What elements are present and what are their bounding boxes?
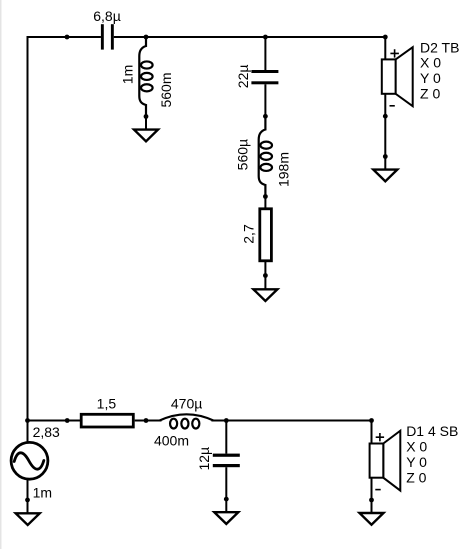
source V1 circle [11, 442, 48, 479]
wire R2 top [264, 197, 266, 209]
wire R2 bottom [264, 262, 266, 276]
node dot top rail d [383, 35, 388, 40]
wire bottom rail left [28, 420, 81, 422]
svg-text:1,5: 1,5 [97, 396, 117, 412]
node dot D1 top [369, 418, 374, 423]
ground under L1 [134, 117, 158, 142]
inductor L1 body [139, 37, 152, 117]
svg-text:2,7: 2,7 [241, 224, 257, 244]
wire top rail right [114, 36, 386, 38]
node dot bottom rail a [65, 418, 70, 423]
svg-text:Z 0: Z 0 [406, 469, 426, 485]
svg-text:198m: 198m [275, 152, 291, 187]
resistor R1 body [81, 414, 133, 427]
left window edge [0, 0, 2, 549]
svg-text:D1 4 SB: D1 4 SB [406, 423, 458, 439]
wire C3 top [225, 421, 227, 454]
svg-text:6,8µ: 6,8µ [93, 8, 121, 24]
speaker D1 symbol [370, 431, 401, 491]
wire D1 bottom [371, 478, 373, 500]
node dot C3 bottom [224, 497, 229, 502]
svg-text:12µ: 12µ [196, 447, 212, 471]
wire C3 bottom [225, 467, 227, 499]
node dot D1 bottom [369, 498, 374, 503]
svg-text:400m: 400m [154, 432, 189, 448]
capacitor C3 12u plates [213, 454, 240, 468]
node dot D2 minus [383, 114, 388, 119]
svg-text:X 0: X 0 [406, 438, 427, 454]
node dot L2-R2 [263, 194, 268, 199]
svg-text:470µ: 470µ [171, 396, 202, 412]
wire C2 top [264, 37, 266, 70]
node dot bottom rail b [144, 418, 149, 423]
node dot D2 ground seg [383, 154, 388, 159]
svg-text:Y 0: Y 0 [420, 70, 441, 86]
ground under D1 [360, 500, 384, 525]
wire source top [27, 421, 29, 443]
resistor R2 body [260, 209, 272, 261]
ground under source [16, 500, 40, 525]
node dot C2-L2 [263, 114, 268, 119]
node dot R2 bottom [263, 273, 268, 278]
ground under C3 [214, 499, 238, 524]
node dot top rail a [65, 35, 70, 40]
svg-text:560µ: 560µ [235, 139, 251, 170]
ground under R2 [253, 276, 277, 302]
wire D2 top pin [384, 37, 386, 59]
wire bottom rail right [211, 420, 371, 422]
node dot L1 bottom [144, 114, 149, 119]
wire D2 to ground [384, 94, 386, 157]
node dot bottom rail c [224, 418, 229, 423]
wire top rail left [27, 36, 101, 38]
wire bottom rail mid [135, 420, 162, 422]
svg-text:560m: 560m [158, 72, 174, 107]
ground under D2 [373, 157, 397, 182]
wire C2 bottom [264, 84, 266, 116]
svg-text:X 0: X 0 [420, 55, 441, 71]
svg-text:22µ: 22µ [235, 65, 251, 89]
speaker D2 symbol [382, 47, 413, 106]
node dot source bottom [25, 498, 30, 503]
svg-text:2,83: 2,83 [33, 424, 60, 440]
capacitor C1 6,8u plates [101, 24, 114, 49]
svg-text:Z 0: Z 0 [420, 85, 440, 101]
inductor L3 body [160, 414, 214, 428]
wire source bottom [27, 480, 29, 500]
node dot top rail b [144, 35, 149, 40]
source V1 sine [14, 453, 44, 469]
wire D1 top pin [371, 421, 373, 444]
svg-text:Y 0: Y 0 [406, 454, 427, 470]
svg-text:D2 TB: D2 TB [420, 39, 459, 55]
node dot source junction [25, 418, 30, 423]
wire left rail [27, 37, 29, 421]
svg-text:1m: 1m [33, 485, 52, 501]
node dot top rail c [263, 35, 268, 40]
capacitor C2 22u plates [251, 70, 278, 84]
inductor L2 body [259, 116, 272, 196]
svg-text:1m: 1m [119, 65, 135, 84]
